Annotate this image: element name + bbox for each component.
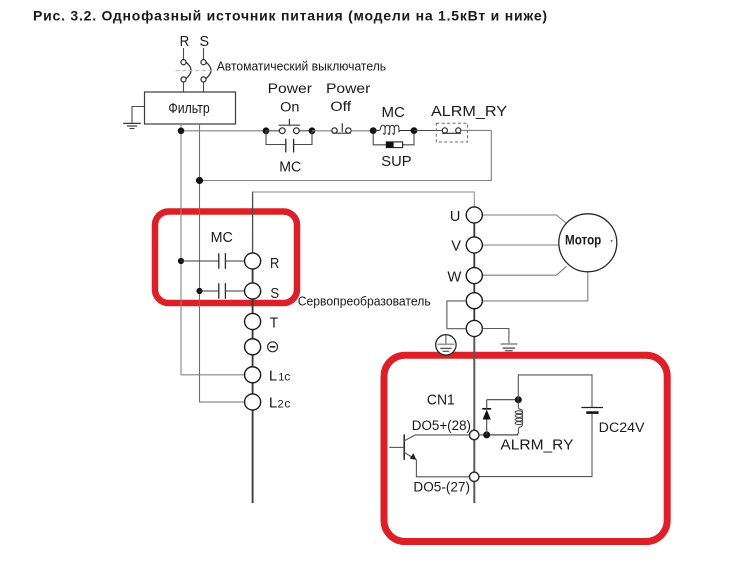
terminal 4 (motor return): [466, 293, 482, 309]
contact MC (R phase): [218, 253, 220, 269]
pushbutton Power On (NO): [279, 128, 299, 134]
wire R to breaker: [183, 48, 185, 60]
svg-text:Автоматический выключатель: Автоматический выключатель: [217, 58, 387, 73]
symbol circled minus: [268, 342, 278, 352]
terminal L1C: [245, 367, 261, 383]
ground (drive): [500, 343, 517, 345]
wire to MC contact R: [181, 260, 219, 262]
svg-text:T: T: [270, 315, 278, 332]
junction phase1/control: [178, 128, 185, 135]
protective earth symbol: [436, 335, 456, 355]
contact MC holding (parallel): [266, 131, 312, 145]
wire jumper terminal4-terminal5: [447, 301, 467, 329]
svg-text:Сервопреобразователь: Сервопреобразователь: [298, 293, 431, 308]
terminal T: [245, 313, 261, 329]
circuit breaker QF pole R: [181, 60, 191, 82]
svg-text:Power: Power: [268, 81, 313, 96]
wire Power On to node B: [299, 130, 313, 132]
junction node D: [411, 127, 418, 134]
wire filter to ground: [132, 107, 145, 124]
contact MC (S phase): [218, 283, 220, 299]
wire node B to Power Off: [312, 130, 332, 132]
dot after motor label: [611, 240, 613, 242]
svg-text:MC: MC: [211, 229, 233, 246]
svg-text:Фильтр: Фильтр: [168, 101, 209, 117]
highlight box 1 (MC contacts region): [155, 212, 297, 304]
svg-text:CN1: CN1: [427, 392, 455, 409]
junction MC-S: [196, 288, 202, 294]
transistor Q1: [403, 434, 405, 459]
wire DO5+ node: [479, 434, 518, 436]
breaker mechanical link (dashed): [176, 70, 213, 72]
junction node C: [370, 127, 377, 134]
coil MC (contactor coil): [373, 125, 414, 134]
wire node D to ALRM_RY contact: [414, 130, 442, 132]
wire control line top: [181, 130, 266, 132]
pin DO5- (27): [470, 472, 479, 481]
wire to MC contact S: [200, 290, 219, 292]
junction MC-R: [178, 258, 184, 264]
wire coil top to battery: [518, 375, 592, 407]
Power Off actuator: [333, 123, 351, 133]
Power On actuator: [279, 119, 301, 125]
diode D1: [486, 419, 488, 435]
svg-text:DO5+(28): DO5+(28): [412, 418, 471, 433]
relay coil ALRM_RY: [490, 400, 522, 435]
junction DO5+ node: [483, 431, 490, 438]
terminal S: [245, 283, 261, 299]
svg-text:U: U: [450, 208, 461, 225]
pin DO5+ (28): [470, 430, 479, 439]
junction phase2/control: [196, 177, 203, 184]
bus below C5: [473, 336, 475, 503]
svg-text:On: On: [280, 100, 299, 115]
terminal R: [245, 253, 261, 269]
svg-text:MC: MC: [279, 159, 301, 176]
wire phase bus 2 (filter out to L2C): [200, 124, 245, 402]
terminal PE (minus): [245, 339, 261, 355]
filter box: [145, 92, 236, 124]
svg-text:ALRM_RY: ALRM_RY: [431, 103, 507, 120]
suppressor SUP symbol: [386, 142, 402, 148]
svg-text:Power: Power: [326, 81, 371, 96]
junction node A (PowerOn left): [263, 127, 270, 134]
wire S to breaker: [203, 48, 205, 60]
emitter arrowhead: [410, 453, 417, 460]
wire control return: [200, 130, 492, 180]
svg-text:R: R: [270, 255, 279, 272]
wire motor return: [482, 272, 588, 301]
svg-text:Мотор: Мотор: [565, 231, 601, 247]
wire W to motor: [482, 266, 566, 275]
svg-text:SUP: SUP: [381, 153, 411, 170]
wire node A to Power On: [266, 130, 280, 132]
terminal L2C: [245, 394, 261, 410]
terminal V: [466, 237, 482, 253]
junction node B: [309, 127, 316, 134]
wire phase bus 1 (filter out to L1C): [181, 124, 245, 375]
svg-text:S: S: [270, 285, 279, 302]
highlight box 2 (CN1 region): [384, 355, 667, 541]
junction coil top: [515, 396, 522, 403]
battery DC24V: [581, 407, 603, 409]
svg-text:V: V: [451, 238, 461, 255]
svg-text:Рис. 3.2. Однофазный источник: Рис. 3.2. Однофазный источник питания (м…: [33, 8, 548, 24]
svg-text:W: W: [447, 268, 462, 285]
svg-text:Off: Off: [330, 99, 351, 114]
ground (filter): [123, 123, 141, 128]
terminal W: [466, 268, 482, 284]
wire emitter to DO5-: [404, 452, 469, 476]
wire U to motor: [482, 215, 566, 224]
pushbutton Power Off (NC): [332, 128, 351, 133]
wire servo top connector: [252, 192, 254, 254]
wire breaker S to filter: [203, 82, 205, 92]
terminal 5 (ground): [466, 320, 482, 336]
terminal U: [466, 207, 482, 223]
wire Power Off to MC coil: [351, 130, 374, 132]
svg-text:DO5-(27): DO5-(27): [413, 480, 470, 495]
motor M1: [559, 214, 617, 272]
suppressor SUP branch: [373, 134, 414, 145]
wire V to motor: [482, 244, 559, 246]
wire terminal5 to ground: [482, 329, 509, 344]
circuit breaker QF pole S: [201, 60, 211, 82]
svg-text:R: R: [180, 34, 190, 50]
wire battery to DO5-: [479, 414, 592, 477]
wire collector to DO5+: [404, 435, 469, 441]
wire diode top to coil top: [487, 399, 519, 401]
wire breaker R to filter: [183, 82, 185, 92]
svg-text:S: S: [200, 34, 210, 50]
servo output bus: [473, 223, 475, 321]
relay contact ALRM_RY (dashed box): [436, 123, 467, 142]
servo input bus: [252, 269, 254, 503]
svg-text:DC24V: DC24V: [599, 420, 645, 435]
svg-text:MC: MC: [382, 104, 406, 121]
svg-text:ALRM_RY: ALRM_RY: [500, 436, 573, 453]
